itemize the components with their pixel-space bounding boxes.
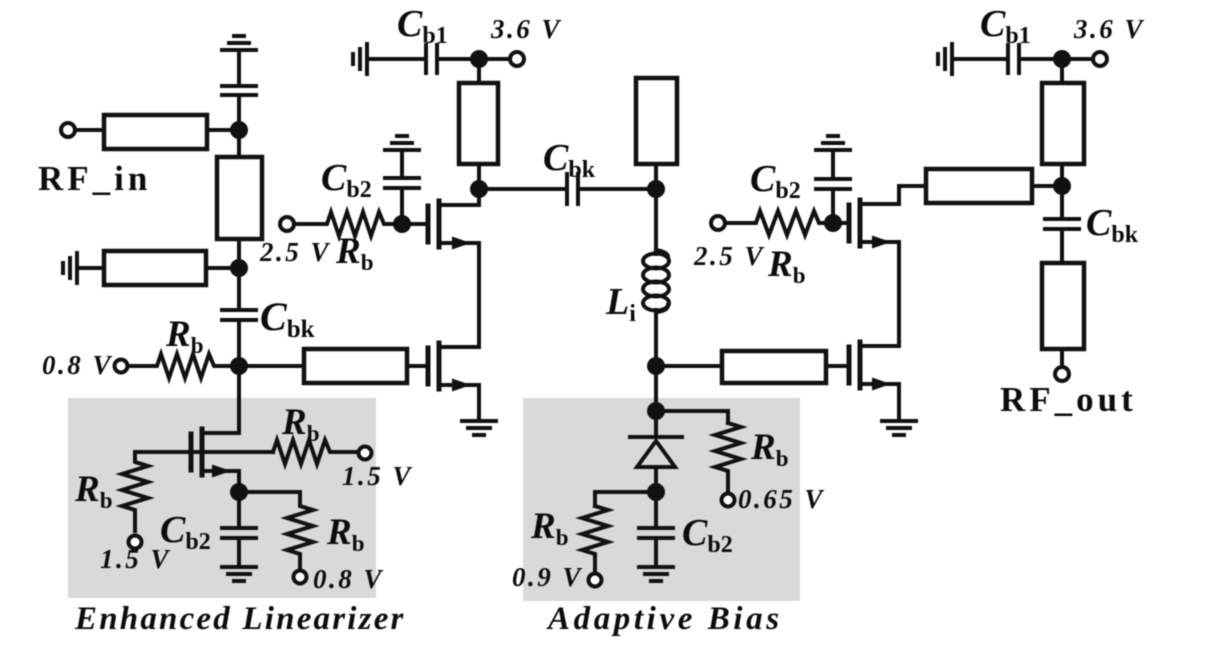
node A (input column / shunt TL junction) xyxy=(230,121,248,139)
ground (M3 source) xyxy=(882,421,916,435)
node E (stage-1 drain / output of cascode) xyxy=(470,180,488,198)
node F (stage-1 3.6V supply node) xyxy=(470,50,488,68)
capacitor Cb2 (stage-1 cascode bypass) xyxy=(385,150,419,224)
svg-text:Cbk: Cbk xyxy=(1086,202,1139,248)
svg-text:0.8 V: 0.8 V xyxy=(313,564,384,594)
terminal 1.5V left (open circle) xyxy=(129,536,142,549)
wire (TL1 to RF_in terminal) xyxy=(75,128,104,132)
svg-text:Cb1: Cb1 xyxy=(980,3,1031,49)
wire (TL3 to ground) xyxy=(77,266,104,270)
transmission line TL7 (stage-2 gate line) xyxy=(722,351,826,383)
capacitor Cb1 (stage-2 supply bypass) xyxy=(952,45,1054,73)
MOSFET M2 (stage-1 cascode) xyxy=(428,189,479,347)
transmission line TL9 (stage-2 drain choke) xyxy=(1042,59,1084,186)
ground (top of input column, pointing up) xyxy=(222,36,256,86)
svg-text:2.5 V: 2.5 V xyxy=(259,237,331,267)
transmission line TL5 (stage-1 drain choke) xyxy=(459,59,498,189)
svg-text:Cbk: Cbk xyxy=(543,137,596,183)
resistor Rb (adaptive 0.9V) xyxy=(582,506,608,570)
node G (interstage node) xyxy=(647,180,665,198)
capacitor Cb2 (linearizer bypass) xyxy=(222,492,256,567)
svg-text:Adaptive Bias: Adaptive Bias xyxy=(546,601,783,637)
wire (node L to M4 gate) xyxy=(833,221,847,225)
wire (node B to TL3) xyxy=(206,266,239,270)
node B (input column / grounded TL junction) xyxy=(230,259,248,277)
ground (above stage-2 Cb2, pointing up) xyxy=(816,136,850,150)
svg-text:0.8 V: 0.8 V xyxy=(42,350,113,380)
wire (node G down to Li) xyxy=(654,189,658,254)
MOSFET M3 (stage-2 common source) xyxy=(849,342,899,421)
transmission line TL3 (shunt grounded line) xyxy=(104,251,206,285)
ground (left of TL3, sideways) xyxy=(63,253,77,283)
wire (node H to TL7) xyxy=(656,364,722,368)
svg-text:Cbk: Cbk xyxy=(260,294,315,343)
terminal 3.6V (stage-1, open circle) xyxy=(510,52,524,66)
node I (adaptive bias top node) xyxy=(647,402,665,420)
node N (stage-2 3.6V supply node) xyxy=(1053,50,1071,68)
capacitor Cbk (interstage coupling) xyxy=(487,174,656,204)
svg-text:Cb2: Cb2 xyxy=(750,158,801,204)
svg-text:Rb: Rb xyxy=(165,314,203,358)
wire (Li to node H) xyxy=(654,310,658,366)
resistor Rb (stage-2 cascode gate bias) xyxy=(725,211,833,235)
MOSFET ML (enhanced linearizer) xyxy=(135,429,273,492)
svg-text:RF_out: RF_out xyxy=(1000,380,1137,419)
capacitor Cb2 (stage-2 cascode bypass) xyxy=(816,150,850,223)
wire (node H down into adaptive bias) xyxy=(654,366,658,411)
transmission line TL4 (stage-1 gate line) xyxy=(304,349,407,383)
terminal 1.5V right (open circle) xyxy=(359,447,372,460)
diode D1 (adaptive bias) xyxy=(630,411,682,492)
shaded box: Adaptive Bias region xyxy=(523,398,800,601)
capacitor Cbk (output DC block) xyxy=(1045,186,1079,263)
terminal 0.8V (open circle) xyxy=(115,360,128,373)
wire (node A to TL1) xyxy=(207,128,239,132)
node D (stage-1 cascode gate) xyxy=(393,215,411,233)
wire (node D to M2 gate) xyxy=(402,222,426,226)
wire (node I to 0.65V resistor) xyxy=(656,411,728,423)
transmission line TL1 (series input line) xyxy=(104,115,207,149)
svg-text:RF_in: RF_in xyxy=(38,159,151,198)
wire (node J to 0.9V resistor) xyxy=(595,492,656,506)
capacitor Cb1 (stage-1 supply bypass) xyxy=(367,45,471,73)
resistor Rb (0.8V gate bias) xyxy=(128,354,238,378)
capacitor Cbk (stage-1 input DC block) xyxy=(222,268,256,366)
svg-text:Cb1: Cb1 xyxy=(397,3,448,49)
transmission line TL2 (vertical input stub) xyxy=(217,130,262,268)
wire (TL7 to M3 gate) xyxy=(826,364,847,368)
terminal 0.8V linearizer (open circle) xyxy=(294,571,307,584)
svg-text:3.6 V: 3.6 V xyxy=(490,14,562,44)
ground (M1 source) xyxy=(462,421,496,435)
wire (node C to TL4) xyxy=(239,364,304,368)
terminal 0.9V (open circle) xyxy=(589,574,602,587)
capacitor Cb2 (adaptive bias bypass) xyxy=(639,492,673,567)
svg-text:2.5 V: 2.5 V xyxy=(693,241,765,271)
transmission line TL6 (open stub above interstage node) xyxy=(636,78,677,189)
terminal RF_out (open circle) xyxy=(1055,367,1069,381)
resistor Rb (stage-1 cascode gate bias) xyxy=(294,212,404,236)
svg-text:Rb: Rb xyxy=(767,244,805,288)
terminal 2.5V (stage-2, open circle) xyxy=(711,216,725,230)
MOSFET M4 (stage-2 cascode) xyxy=(849,186,926,346)
ground (left of stage-2 Cb1, sideways) xyxy=(938,44,952,74)
node H (stage-2 gate node) xyxy=(647,357,665,375)
resistor Rb (linearizer source, 0.8V) xyxy=(239,492,313,569)
svg-text:1.5 V: 1.5 V xyxy=(342,461,413,491)
node J (adaptive bias lower node) xyxy=(647,483,665,501)
node M (stage-2 drain node) xyxy=(1053,177,1071,195)
resistor Rb (linearizer drain, 1.5V right) xyxy=(273,440,356,464)
inductor Li xyxy=(643,250,669,312)
wire (TL10 to RF_out terminal) xyxy=(1060,349,1064,368)
wire (TL4 to M1 gate) xyxy=(407,364,426,368)
MOSFET M1 (stage-1 common source) xyxy=(428,343,479,421)
ground (below linearizer Cb2) xyxy=(222,567,256,581)
transmission line TL10 (output matching line) xyxy=(1042,263,1084,349)
wire (node N to 3.6V terminal) xyxy=(1062,57,1093,61)
terminal 2.5V (stage-1, open circle) xyxy=(280,217,294,231)
ground (below adaptive Cb2) xyxy=(639,567,673,581)
terminal RF_in (open circle) xyxy=(61,123,75,137)
node L (stage-2 cascode gate) xyxy=(824,214,842,232)
node C (0.8V bias / gate node) xyxy=(230,357,248,375)
resistor Rb (linearizer gate, 1.5V left) xyxy=(122,452,148,531)
svg-text:Enhanced Linearizer: Enhanced Linearizer xyxy=(74,601,406,637)
svg-text:0.9 V: 0.9 V xyxy=(512,562,583,592)
ground (left of stage-1 Cb1, sideways) xyxy=(353,44,367,74)
wire (node F to 3.6V terminal) xyxy=(487,57,510,61)
terminal 0.65V (open circle) xyxy=(722,494,735,507)
resistor Rb (adaptive 0.65V) xyxy=(715,423,741,494)
svg-text:Rb: Rb xyxy=(335,231,373,275)
svg-text:3.6 V: 3.6 V xyxy=(1073,14,1145,44)
transmission line TL8 (stage-2 drain line) xyxy=(926,169,1032,203)
svg-text:Li: Li xyxy=(605,281,636,327)
terminal 3.6V (stage-2, open circle) xyxy=(1093,52,1107,66)
node K (linearizer source node) xyxy=(230,483,248,501)
wire (node C down to linearizer MOSFET drain) xyxy=(202,366,239,433)
capacitor (series cap, top of input column) xyxy=(222,86,256,130)
ground (above stage-1 Cb2, pointing up) xyxy=(385,136,419,150)
svg-text:Cb2: Cb2 xyxy=(321,157,372,203)
svg-text:0.65 V: 0.65 V xyxy=(738,484,825,514)
shaded box: Enhanced Linearizer region xyxy=(68,398,376,598)
wire (TL8 to node M) xyxy=(1032,184,1062,188)
